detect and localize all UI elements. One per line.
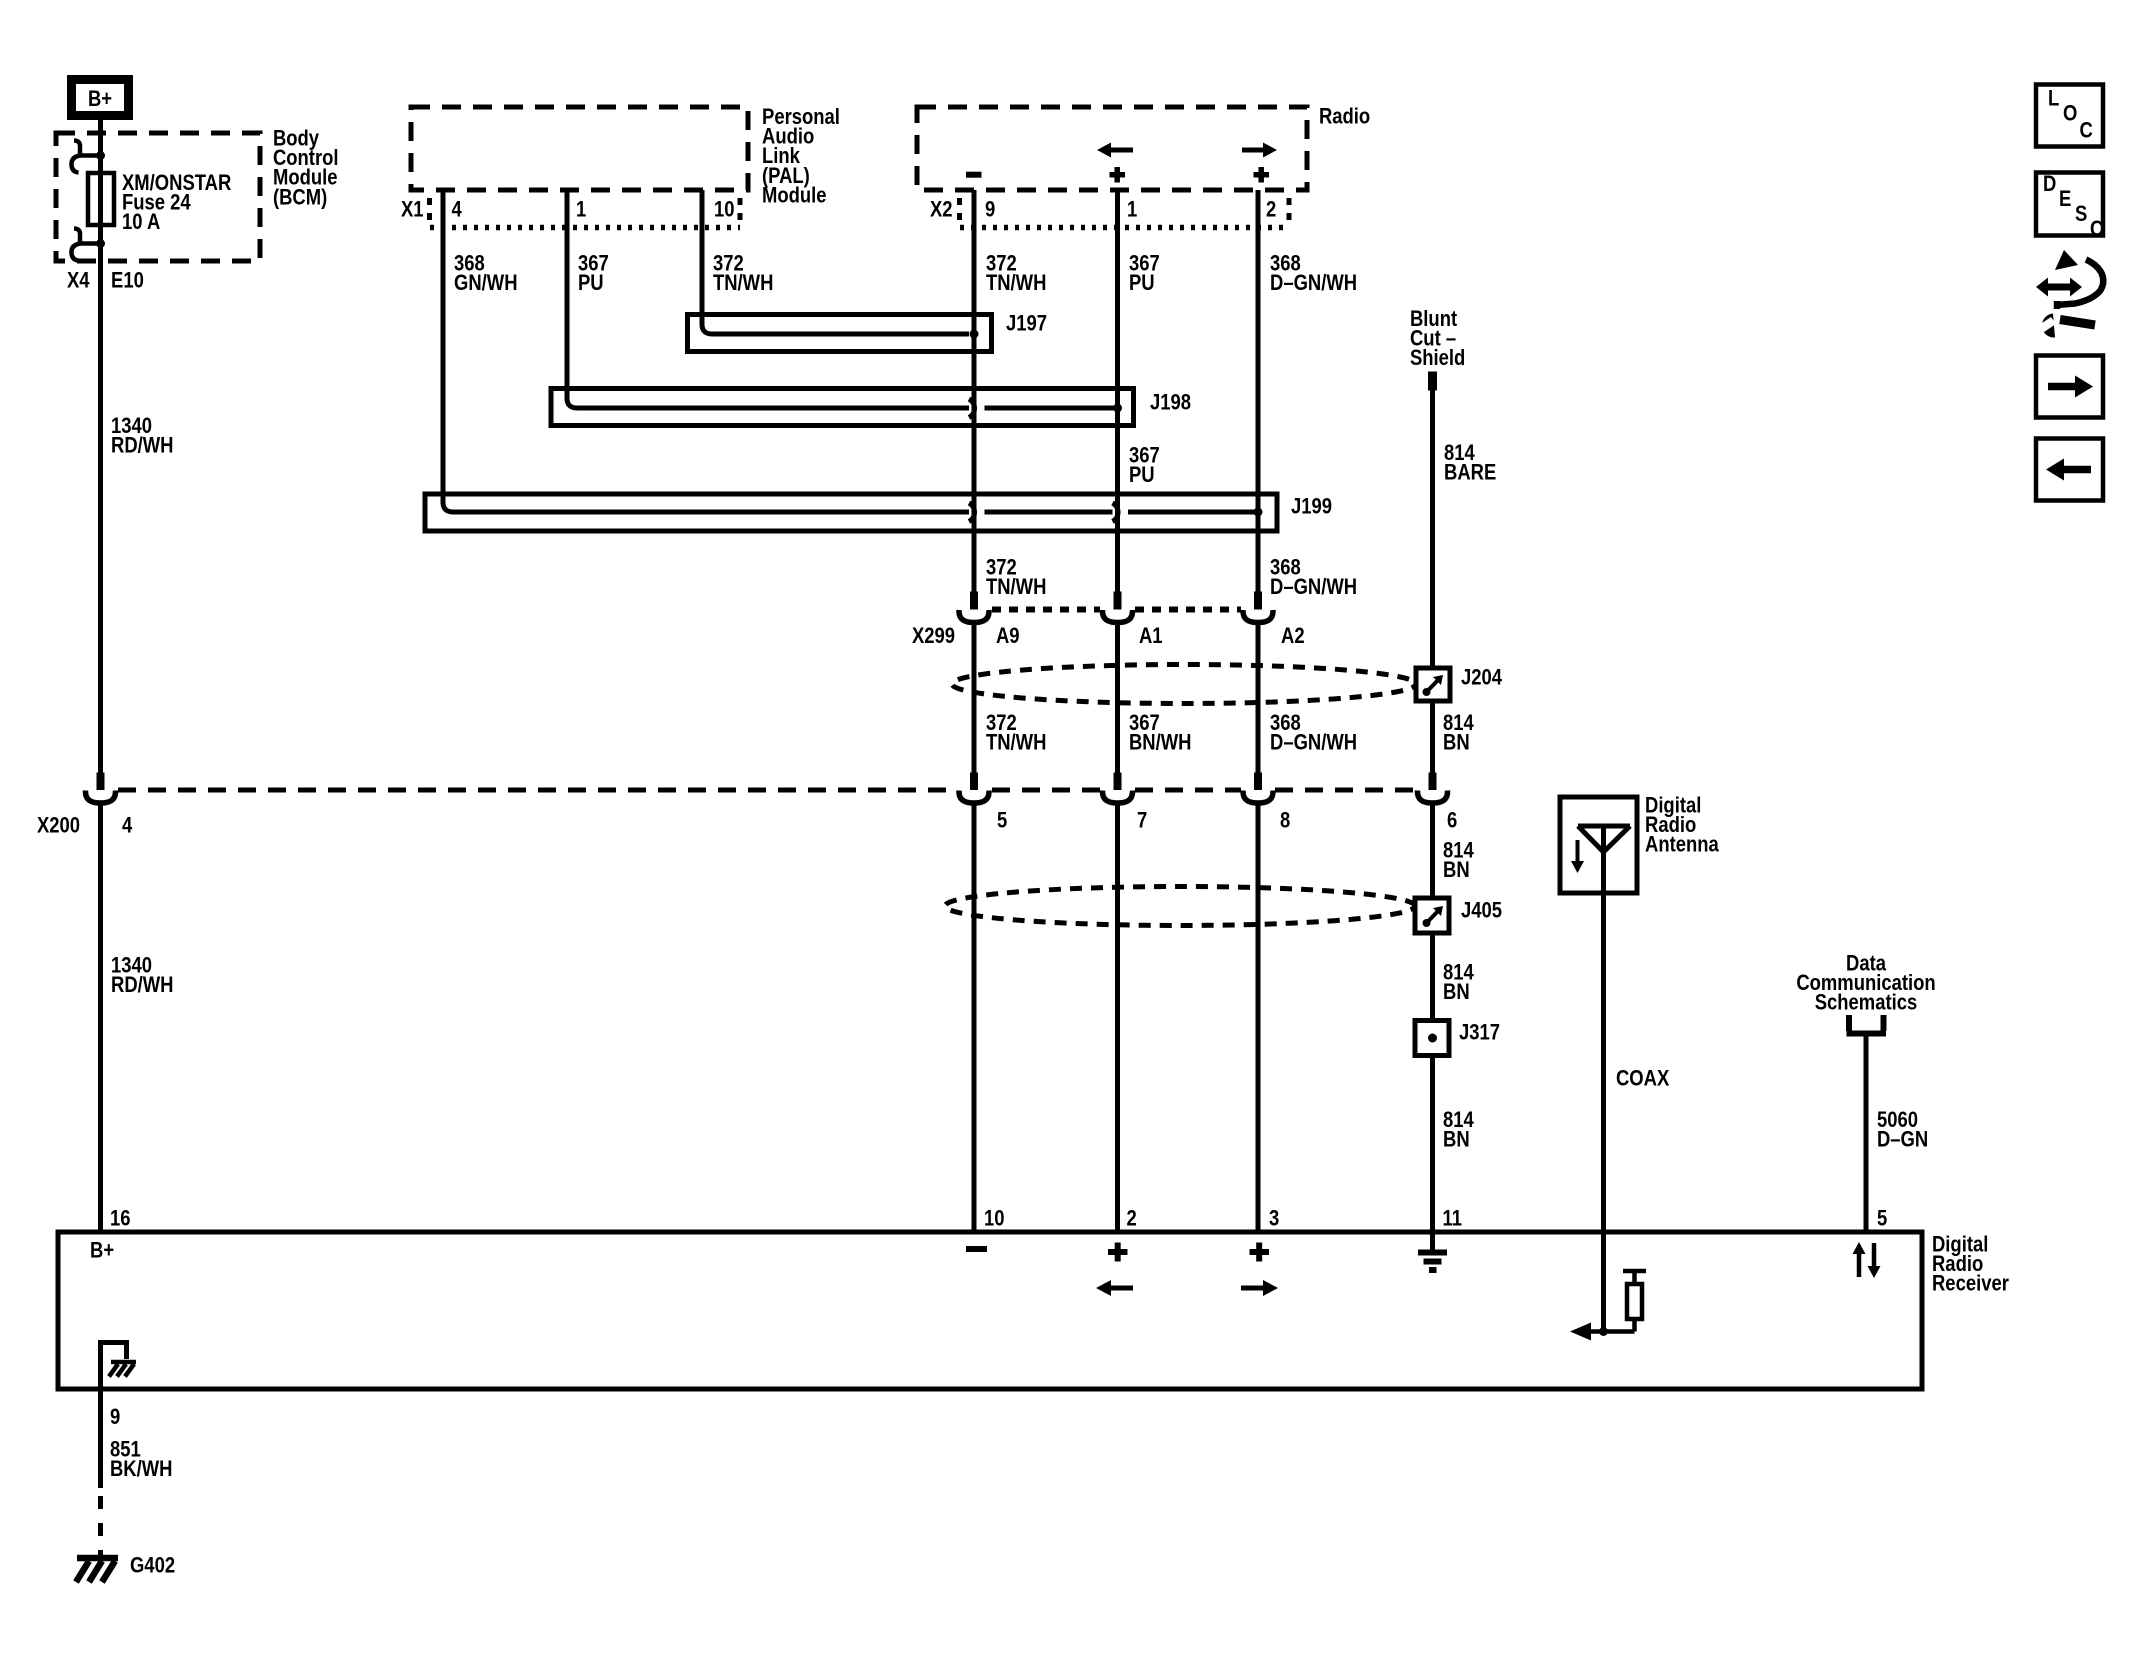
- svg-text:1: 1: [576, 197, 586, 222]
- internal chassis ground branch: [101, 1343, 127, 1489]
- plus polarity (pin 3): [1250, 1243, 1270, 1262]
- X299 dashed connector line: [992, 607, 1241, 613]
- COAX wire: [1601, 893, 1606, 1328]
- svg-text:O: O: [2063, 101, 2077, 126]
- wire 5060 D-GN: [1864, 1036, 1869, 1232]
- wire 367 BN/WH (X200 down): [1115, 803, 1120, 1232]
- connector X2 dotted outline: [957, 198, 962, 227]
- svg-text:TN/WH: TN/WH: [986, 730, 1046, 755]
- svg-text:D–GN/WH: D–GN/WH: [1270, 270, 1357, 295]
- plus polarity mark (radio pin 1): [1110, 167, 1126, 183]
- repair icon wrench: [2060, 320, 2095, 326]
- svg-text:TN/WH: TN/WH: [713, 270, 773, 295]
- wire 814 BN below X200: [1430, 803, 1435, 898]
- svg-text:GN/WH: GN/WH: [454, 270, 518, 295]
- svg-text:9: 9: [110, 1404, 120, 1429]
- svg-text:B+: B+: [88, 87, 112, 112]
- svg-text:RD/WH: RD/WH: [111, 972, 173, 997]
- connector X200 pin 4 (BCM wire): [97, 773, 105, 791]
- splice node on J199: [1254, 508, 1263, 517]
- DESC icon: [2036, 173, 2103, 236]
- svg-text:J317: J317: [1459, 1020, 1500, 1045]
- shield ellipse at J405: [945, 887, 1415, 926]
- svg-text:TN/WH: TN/WH: [986, 574, 1046, 599]
- svg-text:16: 16: [110, 1206, 131, 1231]
- wire 372 TN/WH (X299 down): [972, 623, 977, 775]
- svg-text:4: 4: [122, 813, 133, 838]
- svg-text:BARE: BARE: [1444, 460, 1496, 485]
- wire PAL pin1 367 PU: [567, 190, 969, 408]
- connector X200 pin 6: [1429, 773, 1437, 791]
- svg-text:X299: X299: [912, 623, 955, 648]
- svg-text:11: 11: [1442, 1206, 1462, 1231]
- wire 814 BN to receiver pin 11: [1430, 1056, 1435, 1233]
- wire 814 BN to J317: [1430, 933, 1435, 1021]
- connector X1 dotted outline: [427, 198, 432, 227]
- svg-text:10 A: 10 A: [122, 210, 160, 235]
- wire hop over 372 wire: [969, 503, 975, 522]
- twisted pair shield J197 box: [688, 315, 992, 352]
- shield ellipse at J204: [952, 665, 1416, 704]
- left audio arrow (radio): [1108, 148, 1133, 153]
- connector X299 pin A2: [1254, 592, 1262, 610]
- wire 368 D-GN/WH (X2-2 down): [1256, 190, 1261, 592]
- svg-text:D–GN/WH: D–GN/WH: [1270, 730, 1357, 755]
- hyperlink forward icon: [2036, 356, 2103, 418]
- wire 1340 RD/WH to receiver: [98, 803, 103, 1232]
- left audio arrow (receiver): [1110, 1286, 1133, 1291]
- splice J317 box: [1415, 1021, 1449, 1056]
- svg-text:J199: J199: [1291, 494, 1332, 519]
- splice J405 box: [1415, 898, 1449, 933]
- wire 367 PU (X2-1 down): [1115, 190, 1120, 592]
- svg-text:J197: J197: [1006, 311, 1047, 336]
- svg-text:2: 2: [1127, 1206, 1137, 1231]
- svg-text:BN: BN: [1443, 857, 1470, 882]
- svg-text:COAX: COAX: [1616, 1066, 1670, 1091]
- Digital Radio Antenna box: [1560, 797, 1637, 893]
- data up/down arrows (pin 5): [1859, 1243, 1874, 1277]
- right audio arrow (receiver): [1241, 1286, 1264, 1291]
- svg-text:X4: X4: [67, 268, 90, 293]
- wire 367 BN/WH (X299 down): [1115, 623, 1120, 775]
- minus polarity (pin 10): [966, 1246, 987, 1252]
- internal arrow to tuner: [1590, 1329, 1604, 1334]
- connector X299 pin A9: [970, 592, 978, 610]
- plus polarity mark (radio pin 2): [1254, 167, 1270, 183]
- svg-text:Antenna: Antenna: [1645, 832, 1719, 857]
- svg-text:3: 3: [1269, 1206, 1279, 1231]
- svg-text:J405: J405: [1461, 898, 1502, 923]
- wire PAL pin4 368 GN/WH: [443, 190, 969, 512]
- svg-text:E10: E10: [111, 268, 144, 293]
- svg-text:(BCM): (BCM): [273, 185, 327, 210]
- wire 368 D-GN/WH (X299 down): [1256, 623, 1261, 775]
- wire 814 BARE: [1430, 387, 1435, 668]
- svg-text:10: 10: [984, 1206, 1005, 1231]
- Radio dashed box: [917, 107, 1307, 190]
- repair icon curved arrow: [2056, 260, 2103, 310]
- svg-text:Receiver: Receiver: [1932, 1271, 2009, 1296]
- hyperlink back icon: [2036, 439, 2103, 501]
- internal termination resistor: [1604, 1271, 1647, 1332]
- wire 814 BN (J204 to X200): [1430, 701, 1435, 773]
- wire hop over 372 wire: [969, 399, 975, 418]
- svg-text:BN: BN: [1443, 1127, 1470, 1152]
- svg-text:Schematics: Schematics: [1815, 990, 1918, 1015]
- svg-text:4: 4: [451, 197, 462, 222]
- connector X200 pin 7: [1114, 773, 1122, 791]
- svg-text:A1: A1: [1139, 623, 1163, 648]
- svg-text:5: 5: [997, 808, 1007, 833]
- wire hop over 367 wire: [1113, 503, 1119, 522]
- Body Control Module (BCM) dashed box: [56, 133, 260, 261]
- connector X299 pin A1: [1114, 592, 1122, 610]
- svg-text:Module: Module: [762, 183, 827, 208]
- svg-text:RD/WH: RD/WH: [111, 433, 173, 458]
- twisted pair shield J199 box: [425, 494, 1277, 531]
- wire 372 TN/WH (X2-9 down): [972, 190, 977, 592]
- svg-text:5: 5: [1877, 1206, 1887, 1231]
- splice J204 box: [1416, 668, 1450, 701]
- splice node on J198: [1113, 404, 1122, 413]
- wire B+ feed down through BCM: [98, 120, 103, 773]
- fuse clip upper: [96, 151, 105, 160]
- wire 368 D-GN/WH (X200 down): [1256, 803, 1261, 1232]
- svg-text:6: 6: [1447, 808, 1457, 833]
- chassis ground G402: [76, 1558, 118, 1582]
- connector X200 pin 8: [1254, 773, 1262, 791]
- svg-text:J198: J198: [1150, 390, 1191, 415]
- svg-text:C: C: [2090, 216, 2103, 241]
- svg-text:9: 9: [985, 197, 995, 222]
- svg-text:Radio: Radio: [1319, 104, 1370, 129]
- svg-text:7: 7: [1137, 808, 1147, 833]
- Digital Radio Receiver box: [58, 1232, 1922, 1389]
- svg-text:B+: B+: [90, 1238, 114, 1263]
- svg-text:J204: J204: [1461, 665, 1503, 690]
- minus polarity mark (radio pin 9): [966, 172, 982, 178]
- svg-text:A2: A2: [1281, 623, 1305, 648]
- wire PAL pin10 372 TN/WH: [702, 190, 969, 334]
- X200 dashed connector line: [118, 788, 1415, 793]
- svg-text:X200: X200: [37, 813, 80, 838]
- svg-text:C: C: [2080, 118, 2093, 143]
- svg-text:L: L: [2048, 86, 2059, 111]
- svg-text:A9: A9: [996, 623, 1020, 648]
- svg-text:E: E: [2059, 186, 2071, 211]
- svg-text:BN: BN: [1443, 730, 1470, 755]
- earth ground (pin 11 internal): [1430, 1232, 1435, 1250]
- svg-text:BN: BN: [1443, 979, 1470, 1004]
- svg-text:X2: X2: [930, 197, 953, 222]
- svg-text:PU: PU: [578, 270, 604, 295]
- fuse clip lower: [96, 239, 105, 248]
- svg-text:D–GN/WH: D–GN/WH: [1270, 574, 1357, 599]
- fuse F24 XM/ONSTAR 10A: [88, 173, 114, 225]
- svg-text:S: S: [2075, 201, 2087, 226]
- svg-text:2: 2: [1266, 197, 1276, 222]
- svg-text:G402: G402: [130, 1553, 175, 1578]
- svg-text:X1: X1: [401, 197, 424, 222]
- splice node on J197: [970, 330, 979, 339]
- wire 372 TN/WH (X200 down): [972, 803, 977, 1232]
- antenna down arrow: [1576, 840, 1580, 862]
- svg-text:BK/WH: BK/WH: [110, 1456, 172, 1481]
- svg-text:D: D: [2043, 171, 2056, 196]
- svg-text:1: 1: [1127, 197, 1137, 222]
- power symbol B+: [72, 80, 129, 116]
- svg-text:PU: PU: [1129, 462, 1155, 487]
- svg-text:BN/WH: BN/WH: [1129, 730, 1191, 755]
- plus polarity (pin 2): [1108, 1243, 1128, 1262]
- svg-text:8: 8: [1280, 808, 1290, 833]
- svg-text:TN/WH: TN/WH: [986, 270, 1046, 295]
- Personal Audio Link (PAL) Module dashed box: [411, 107, 748, 190]
- svg-text:PU: PU: [1129, 270, 1155, 295]
- LOC icon: [2036, 85, 2103, 147]
- antenna symbol: [1578, 826, 1630, 893]
- right audio arrow (radio): [1242, 148, 1266, 153]
- svg-text:D–GN: D–GN: [1877, 1127, 1928, 1152]
- twisted pair shield J198 box: [551, 389, 1134, 426]
- connector X200 pin 5: [970, 773, 978, 791]
- svg-text:10: 10: [714, 197, 735, 222]
- svg-text:Shield: Shield: [1410, 346, 1465, 371]
- repair icon double arrow: [2047, 284, 2071, 291]
